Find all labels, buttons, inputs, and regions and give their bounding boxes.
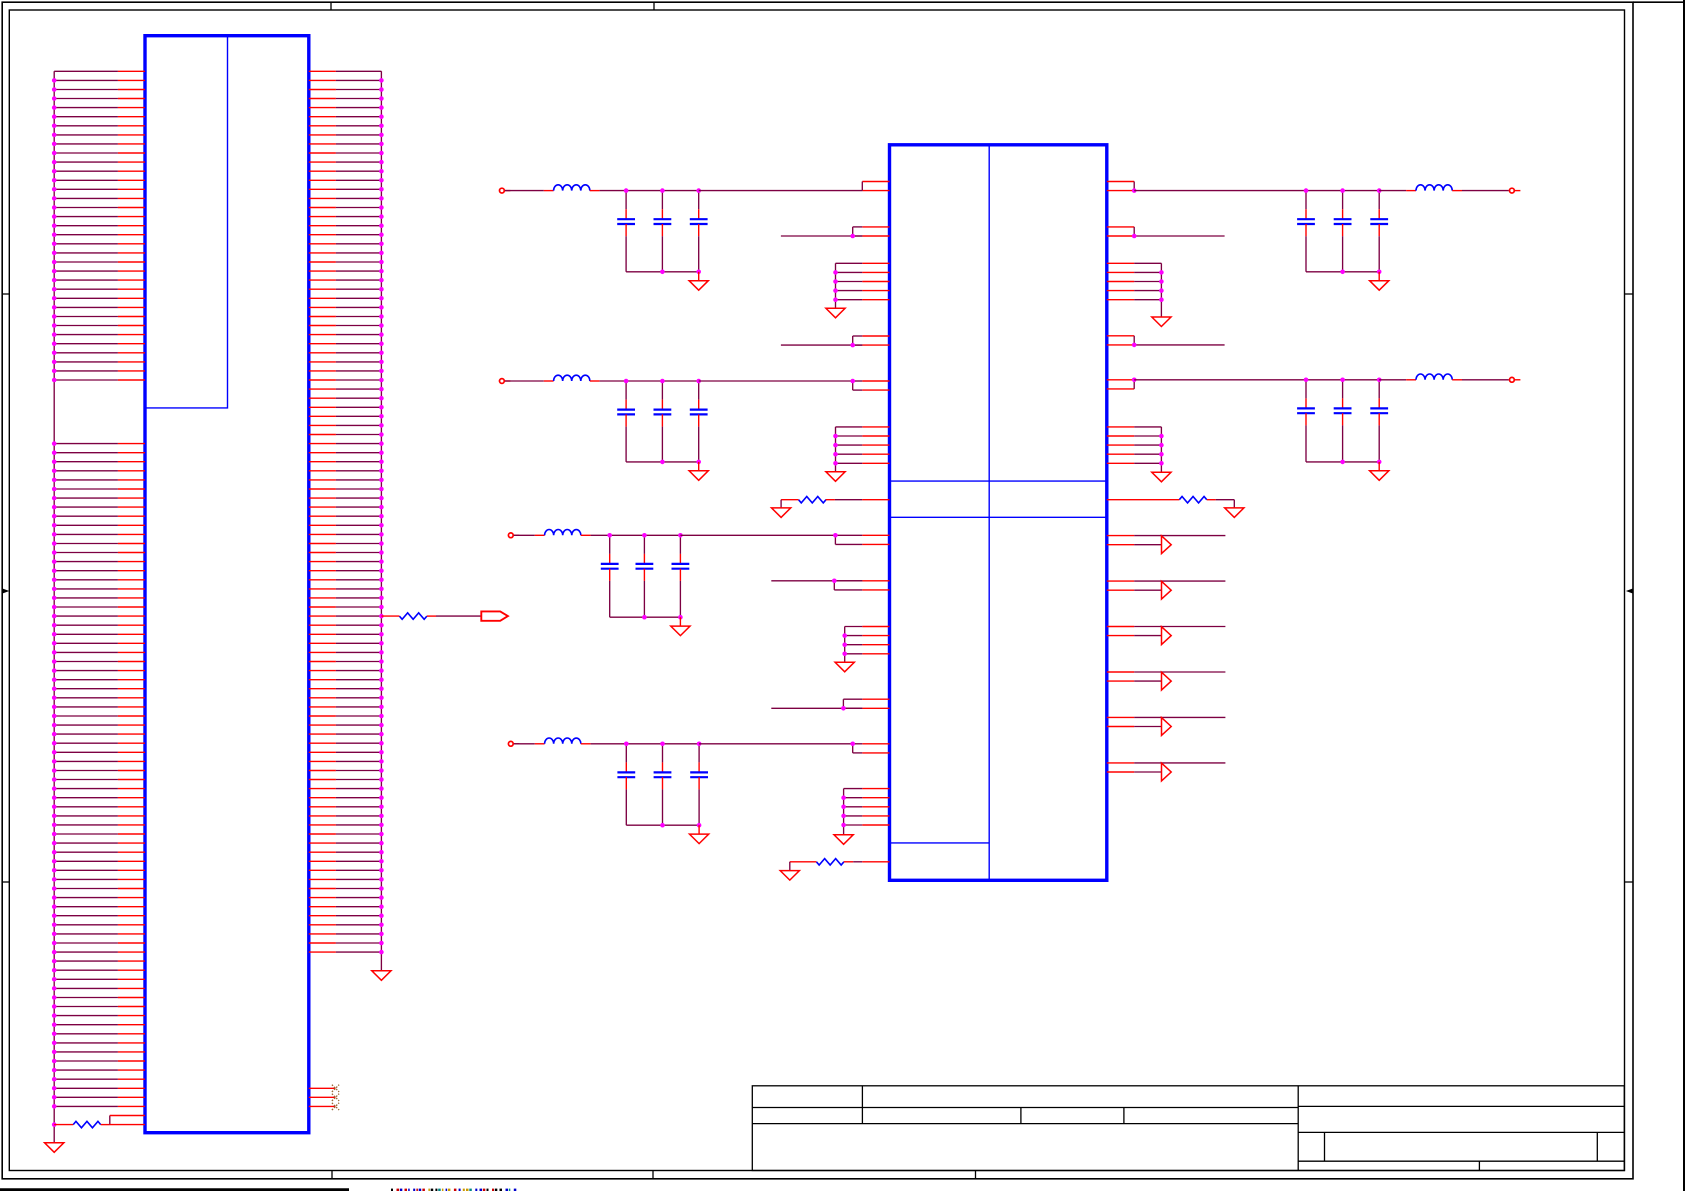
- ground GND5: [772, 508, 791, 518]
- R4 right lead to U2 pin: [844, 861, 853, 863]
- port P6 output: [1510, 377, 1515, 382]
- capacitor C6a: [1297, 380, 1315, 462]
- ground GND9: [1152, 317, 1171, 327]
- wire junctions: [607, 533, 682, 620]
- IC U2 body: [890, 145, 1107, 881]
- inductor L3: [535, 534, 545, 536]
- wire junctions: [1304, 188, 1382, 274]
- ground GND10: [1152, 472, 1171, 482]
- U2 section divider 1: [890, 480, 1107, 482]
- R4 left lead: [790, 861, 817, 863]
- wire from port: [505, 190, 544, 192]
- U2 pin pair 4: [853, 381, 890, 390]
- R3 right lead to U2 pin: [826, 499, 835, 501]
- left bus junctions: [52, 78, 57, 1127]
- ground GND2: [372, 971, 391, 981]
- resistor R4: [816, 859, 844, 865]
- U2 right pin pair 4: [1107, 380, 1134, 389]
- capacitor C2b: [654, 381, 672, 462]
- wire to port: [436, 615, 481, 617]
- wire filter2 to U2: [699, 380, 853, 382]
- U2 right pin pair 2 with net stub: [1107, 227, 1225, 238]
- U2 pin pair 2 with net stub: [781, 227, 890, 238]
- ground GND1: [45, 1143, 64, 1153]
- U2 output pin pair 2 with arrow flag: [1107, 581, 1226, 599]
- U2 pin pair 6 with net stub: [771, 579, 889, 590]
- capacitor ground bus wire: [626, 271, 699, 273]
- U2 output pin pair 1 with arrow flag: [1107, 536, 1226, 554]
- wire R2 left lead: [381, 615, 399, 617]
- U2 pin pair 7 with net stub: [771, 699, 889, 710]
- right bus junctions: [379, 78, 384, 954]
- R5 left lead to U2 pin: [1107, 499, 1180, 501]
- ground GND3: [826, 308, 845, 318]
- capacitor C3b: [636, 535, 654, 617]
- border zone ticks left: [2, 294, 9, 882]
- wire filter1 to U2: [699, 190, 863, 192]
- capacitor ground bus wire: [626, 461, 699, 463]
- U2 pin pair 3 with net stub: [781, 336, 890, 347]
- port P1 input: [500, 188, 505, 193]
- adjacent page edge bottom-left: [0, 1188, 349, 1191]
- ground GND C5: [1378, 272, 1380, 281]
- capacitor C1a: [617, 191, 635, 272]
- U2 pin pair 1: [862, 182, 889, 191]
- U1 no-connect pins: [309, 1085, 339, 1110]
- U2 output pin pair 6 with arrow flag: [1107, 763, 1226, 781]
- capacitor C1b: [654, 191, 672, 272]
- U1 pin row jog lower: [110, 1124, 145, 1126]
- capacitor ground bus wire: [626, 824, 699, 826]
- wire inductor to capacitors: [600, 190, 699, 192]
- U2 right ground pin group 1: [1107, 263, 1164, 317]
- wire filter4 to U2: [699, 743, 853, 745]
- ground GND11: [1225, 508, 1244, 518]
- border zone ticks right: [1625, 294, 1633, 882]
- U1 left pin array (upper bank): [54, 71, 145, 380]
- resistor R5: [1179, 497, 1207, 503]
- port flag OUT: [481, 611, 508, 620]
- wire to port: [1462, 190, 1509, 192]
- wire from port: [505, 380, 544, 382]
- U1 right pin array: [309, 71, 382, 952]
- capacitor C5a: [1297, 191, 1315, 272]
- capacitor ground bus wire: [1306, 271, 1379, 273]
- ground GND C3: [679, 617, 681, 626]
- R5 right lead: [1207, 499, 1216, 501]
- border centre arrow right: [1626, 589, 1633, 594]
- ground GND4: [826, 472, 845, 482]
- inductor L5: [1379, 190, 1406, 192]
- wire junctions: [1304, 378, 1382, 465]
- U2 output pin pair 5 with arrow flag: [1107, 717, 1226, 735]
- inductor L4: [535, 743, 545, 745]
- U2 section divider 2: [890, 516, 1107, 518]
- U2 right pin pair 1: [1107, 182, 1134, 191]
- wire to port: [1462, 379, 1509, 381]
- wire inductor to capacitors: [591, 743, 700, 745]
- left vertical bus wire: [53, 71, 55, 1143]
- U1 pin row jog upper: [110, 1115, 145, 1117]
- capacitor ground bus wire: [1306, 461, 1379, 463]
- resistor R1: [73, 1121, 101, 1127]
- resistor R3: [799, 497, 827, 503]
- wire filter3 to U2: [680, 534, 835, 536]
- resistor R2: [399, 613, 427, 619]
- adjacent page edge right: [1683, 0, 1685, 1191]
- right vertical bus wire: [380, 71, 382, 971]
- inductor L2: [544, 380, 554, 382]
- wire R1 right lead: [101, 1124, 110, 1126]
- wire from port: [514, 743, 535, 745]
- wire R2 right lead: [427, 615, 436, 617]
- wire to ground: [789, 862, 791, 871]
- capacitor C5b: [1334, 191, 1352, 272]
- connector U1 body: [145, 36, 309, 1133]
- wire junctions: [624, 188, 701, 274]
- capacitor C2c: [690, 381, 708, 462]
- capacitor C5c: [1370, 191, 1388, 272]
- wire from port: [514, 534, 535, 536]
- border zone ticks top: [331, 2, 654, 10]
- wire U2 to capacitors: [1134, 379, 1379, 381]
- connector U1 part A divider: [145, 36, 228, 408]
- capacitor C3a: [601, 535, 619, 617]
- port P3 input: [508, 533, 513, 538]
- capacitor C6b: [1334, 380, 1352, 462]
- capacitor C6c: [1370, 380, 1388, 462]
- wire R1 left lead: [54, 1124, 73, 1126]
- ground GND7: [834, 835, 853, 845]
- U2 right pin pair 3 with net stub: [1107, 336, 1225, 347]
- port P4 input: [508, 741, 513, 746]
- U2 ground pin group 1: [833, 263, 889, 308]
- ground GND C4: [698, 825, 700, 834]
- ground GND C6: [1378, 462, 1380, 471]
- wire junctions: [624, 379, 701, 465]
- U2 pin pair 8: [853, 744, 890, 753]
- U2 pin pair 5: [835, 535, 889, 544]
- border centre arrow left: [3, 589, 10, 594]
- wire U2 to capacitors: [1134, 190, 1379, 192]
- U2 section divider 3: [890, 842, 990, 844]
- inductor L6: [1379, 379, 1406, 381]
- outer border top extension: [1633, 1, 1685, 3]
- ground GND C2: [698, 462, 700, 471]
- wire to ground: [1233, 500, 1235, 508]
- U2 ground pin group 2: [833, 427, 889, 472]
- port P5 output: [1510, 188, 1515, 193]
- capacitor C3c: [672, 535, 690, 617]
- ground GND C1: [698, 272, 700, 281]
- capacitor C4b: [654, 744, 672, 825]
- U1 left pin array (lower bank): [54, 444, 145, 1107]
- wire inductor to capacitors: [600, 380, 699, 382]
- U2 ground pin group 4: [841, 789, 889, 835]
- border zone ticks bottom: [332, 1171, 976, 1179]
- wire inductor to capacitors: [591, 534, 681, 536]
- U2 output pin pair 3 with arrow flag: [1107, 627, 1226, 645]
- wire junctions: [624, 742, 701, 828]
- wire to ground: [780, 500, 782, 508]
- R3 left lead: [781, 499, 798, 501]
- U2 centre divider: [988, 145, 990, 881]
- capacitor C4c: [690, 744, 708, 825]
- inductor L1: [544, 190, 554, 192]
- U2 ground pin group 3: [842, 627, 889, 663]
- capacitor C1c: [690, 191, 708, 272]
- ground GND6: [835, 662, 854, 672]
- capacitor C2a: [617, 381, 635, 462]
- U2 right ground pin group 2: [1107, 427, 1164, 472]
- title block: [752, 1086, 1624, 1171]
- port P2 input: [500, 379, 505, 384]
- ground GND8: [780, 871, 799, 881]
- wire jog to pin pair: [109, 1116, 111, 1125]
- capacitor C4a: [617, 744, 635, 825]
- capacitor ground bus wire: [610, 616, 681, 618]
- cut-off footer text: [391, 1189, 516, 1191]
- U2 output pin pair 4 with arrow flag: [1107, 672, 1226, 690]
